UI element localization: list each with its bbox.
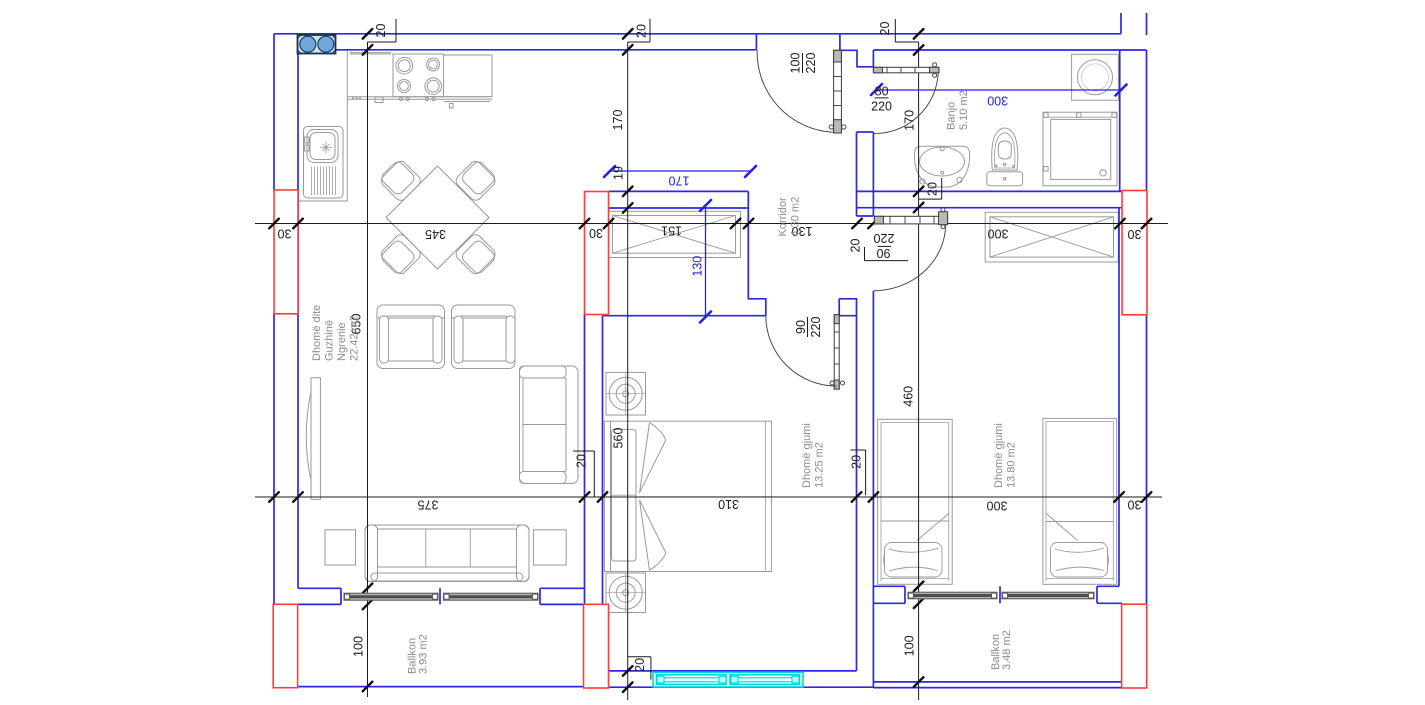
bedroom2 bottom inner wall bbox=[873, 585, 1119, 587]
niche bottom wall / bedroom1 top wall bbox=[603, 315, 766, 317]
svg-text:30: 30 bbox=[589, 226, 603, 240]
inner top wall bbox=[298, 34, 1147, 67]
svg-text:300: 300 bbox=[987, 93, 1008, 107]
dim bracket living wall20 bbox=[573, 451, 594, 497]
grid line vertical kitchen bbox=[367, 42, 369, 697]
column left-bottom bbox=[273, 604, 297, 687]
svg-text:345: 345 bbox=[425, 227, 446, 241]
dining chairs bbox=[378, 158, 499, 277]
bath toilet bbox=[987, 128, 1023, 186]
dim bracket bath wall20 bbox=[919, 178, 942, 199]
bedroom1 bottom inner wall bbox=[609, 670, 857, 672]
wardrobe corridor bbox=[607, 211, 741, 257]
side table left bbox=[325, 530, 356, 565]
bedroom2 window sill panels bbox=[908, 592, 1094, 599]
grid line vertical right bbox=[918, 42, 920, 700]
svg-text:20: 20 bbox=[878, 22, 892, 36]
svg-text:300: 300 bbox=[988, 226, 1009, 240]
bedroom1 west wall face bbox=[602, 316, 604, 605]
door D2 swing arc bbox=[873, 74, 938, 134]
blue dim 170 corridor bbox=[609, 170, 751, 172]
svg-text:20: 20 bbox=[849, 455, 863, 469]
svg-text:22.42 m2: 22.42 m2 bbox=[349, 315, 361, 361]
svg-text:220: 220 bbox=[804, 53, 818, 74]
svg-text:30: 30 bbox=[1128, 227, 1142, 241]
svg-text:Ngrenie: Ngrenie bbox=[336, 322, 348, 361]
bedroom2 inner right wall bbox=[1118, 208, 1120, 587]
living room window sill panels bbox=[344, 593, 538, 600]
svg-text:310: 310 bbox=[718, 497, 739, 511]
svg-text:170: 170 bbox=[611, 110, 625, 131]
nightstand top bbox=[606, 372, 646, 415]
svg-text:13.25 m2: 13.25 m2 bbox=[814, 442, 826, 488]
balcony2 top edge bbox=[873, 602, 1122, 604]
dim bracket bath door label bbox=[865, 247, 909, 261]
top right wall stubs bbox=[1121, 13, 1147, 35]
svg-text:100: 100 bbox=[352, 636, 366, 657]
svg-text:220: 220 bbox=[809, 317, 823, 338]
svg-text:Guzhinë: Guzhinë bbox=[324, 320, 336, 361]
balcony2 label bbox=[990, 630, 1013, 670]
door D1 entry 100/220 leaf bbox=[829, 50, 846, 133]
svg-text:170: 170 bbox=[669, 174, 690, 188]
armchair 1 bbox=[377, 305, 445, 369]
svg-text:19: 19 bbox=[612, 166, 626, 180]
door D2 bath 80/220 leaf bbox=[873, 63, 939, 78]
door label 100/220 bbox=[788, 53, 818, 74]
door label 90/220 bedroom1 bbox=[794, 317, 823, 338]
door D3 bedroom2 90/220 leaf bbox=[874, 208, 947, 229]
bed2 single B bbox=[1043, 418, 1117, 584]
living room label bbox=[311, 305, 361, 361]
balcony1 bottom edge bbox=[298, 686, 584, 688]
svg-text:460: 460 bbox=[902, 386, 916, 407]
outer right wall bbox=[1146, 50, 1148, 604]
TV cabinet bbox=[311, 378, 320, 500]
grid line horizontal upper bbox=[255, 223, 1168, 225]
sofa bottom 3seat bbox=[365, 525, 529, 582]
bath washbasin bbox=[914, 146, 969, 187]
svg-text:170: 170 bbox=[903, 110, 917, 131]
bath bottom wall band bbox=[857, 191, 1123, 207]
svg-text:20: 20 bbox=[926, 182, 940, 196]
svg-text:Dhomë gjumi: Dhomë gjumi bbox=[801, 423, 813, 488]
outer left wall bbox=[273, 34, 275, 605]
svg-text:20: 20 bbox=[849, 239, 863, 253]
svg-text:90: 90 bbox=[877, 246, 891, 260]
column mid-mid bbox=[585, 192, 609, 315]
svg-text:100: 100 bbox=[788, 53, 802, 74]
bath left wall rect bbox=[857, 132, 874, 216]
inner left wall bbox=[297, 50, 299, 589]
column left-mid bbox=[274, 190, 298, 314]
bedroom1 cyan window bbox=[653, 672, 803, 687]
svg-text:4.30 m2: 4.30 m2 bbox=[790, 197, 802, 237]
column mid-bottom bbox=[584, 604, 609, 688]
door D1 swing arc bbox=[757, 50, 833, 132]
svg-text:Dhomë gjumi: Dhomë gjumi bbox=[993, 423, 1005, 488]
bedroom1 door right pier bbox=[839, 299, 856, 316]
kitchen counter top run bbox=[347, 97, 492, 100]
grid line horizontal lower bbox=[255, 496, 1162, 498]
kitchen hob corner unit bbox=[298, 35, 336, 54]
blue dim 300 bath bbox=[877, 89, 1121, 91]
corridor niche top wall bbox=[609, 191, 749, 208]
svg-text:Banjo: Banjo bbox=[946, 102, 958, 130]
bath label bbox=[946, 90, 971, 130]
living room east wall face bbox=[584, 315, 586, 605]
bedroom1 east wall face bbox=[856, 316, 858, 671]
dimension tick marks on grid lines bbox=[269, 29, 1151, 692]
sofa right vertical bbox=[520, 366, 579, 484]
bedroom1/balcony2 outer bottom wall bbox=[609, 686, 1122, 688]
grid line vertical middle bbox=[627, 42, 629, 700]
svg-text:80: 80 bbox=[875, 85, 889, 99]
kitchen upper cabinet line bbox=[350, 53, 391, 54]
svg-text:220: 220 bbox=[871, 100, 892, 114]
svg-text:100: 100 bbox=[903, 635, 917, 656]
bath inner right wall bbox=[1119, 50, 1121, 191]
svg-text:375: 375 bbox=[418, 498, 439, 512]
door D3 swing arc bbox=[874, 224, 946, 291]
door D4 bedroom1 90/220 leaf bbox=[830, 315, 845, 389]
svg-text:20: 20 bbox=[575, 454, 589, 468]
living window jambs bbox=[341, 588, 540, 604]
dim bracket top kitchen bbox=[368, 19, 397, 42]
side table right bbox=[533, 530, 566, 565]
dim bracket top middle bbox=[628, 19, 650, 42]
door D4 swing arc bbox=[766, 316, 837, 386]
blue dim 130 niche bbox=[705, 205, 707, 317]
svg-text:30: 30 bbox=[278, 227, 292, 241]
bath shower bbox=[1043, 112, 1117, 186]
svg-text:5.10 m2: 5.10 m2 bbox=[958, 90, 970, 130]
svg-text:20: 20 bbox=[633, 658, 647, 672]
column right-bottom bbox=[1122, 604, 1147, 688]
armchair 2 bbox=[452, 305, 516, 369]
bedroom1 label bbox=[801, 423, 826, 488]
svg-text:Korridor: Korridor bbox=[777, 197, 789, 236]
dim bracket top right bbox=[895, 19, 918, 42]
kitchen counter left run bbox=[298, 51, 347, 201]
wardrobe bedroom2 bbox=[985, 212, 1118, 262]
balcony1 top edge bbox=[298, 603, 584, 605]
corridor label bbox=[777, 197, 802, 237]
svg-text:90: 90 bbox=[794, 320, 808, 334]
svg-text:13.80 m2: 13.80 m2 bbox=[1006, 442, 1018, 488]
svg-text:151: 151 bbox=[661, 224, 682, 238]
svg-text:3.48 m2: 3.48 m2 bbox=[1001, 630, 1013, 670]
column right-mid bbox=[1122, 191, 1147, 315]
corridor niche right wall bbox=[748, 191, 766, 315]
TV set bbox=[306, 392, 311, 481]
balcony1 label bbox=[407, 634, 430, 674]
dim bracket bottom middle20 bbox=[628, 657, 651, 680]
svg-text:220: 220 bbox=[874, 231, 895, 245]
balcony2 rail line bbox=[873, 681, 1121, 683]
door label 80/220 bbox=[871, 85, 892, 114]
door label 90/220 bath bbox=[874, 231, 895, 260]
outer top wall bbox=[274, 33, 1121, 35]
svg-text:30: 30 bbox=[1128, 498, 1142, 512]
bed2 single A bbox=[878, 419, 953, 584]
svg-text:560: 560 bbox=[612, 428, 626, 449]
kitchen sink unit bbox=[304, 127, 344, 199]
svg-text:300: 300 bbox=[987, 499, 1008, 513]
living room bottom wall bbox=[298, 587, 585, 589]
kitchen stove bbox=[393, 54, 444, 101]
svg-text:20: 20 bbox=[635, 24, 649, 38]
svg-text:20: 20 bbox=[374, 24, 388, 38]
svg-text:130: 130 bbox=[691, 256, 705, 277]
nightstand bottom bbox=[606, 573, 646, 613]
dim bracket bed1 wall20 bbox=[851, 450, 866, 495]
bedroom2 west wall face bbox=[872, 291, 874, 688]
svg-text:3.93 m2: 3.93 m2 bbox=[418, 634, 430, 674]
svg-text:Dhomë dite: Dhomë dite bbox=[311, 305, 323, 361]
bedroom2 label bbox=[993, 423, 1018, 488]
kitchen worktop right section bbox=[444, 55, 493, 97]
dining table bbox=[386, 166, 489, 269]
bed1 double bbox=[604, 421, 771, 571]
washing machine bbox=[1072, 54, 1119, 100]
bedroom2 window jambs bbox=[905, 586, 1097, 603]
